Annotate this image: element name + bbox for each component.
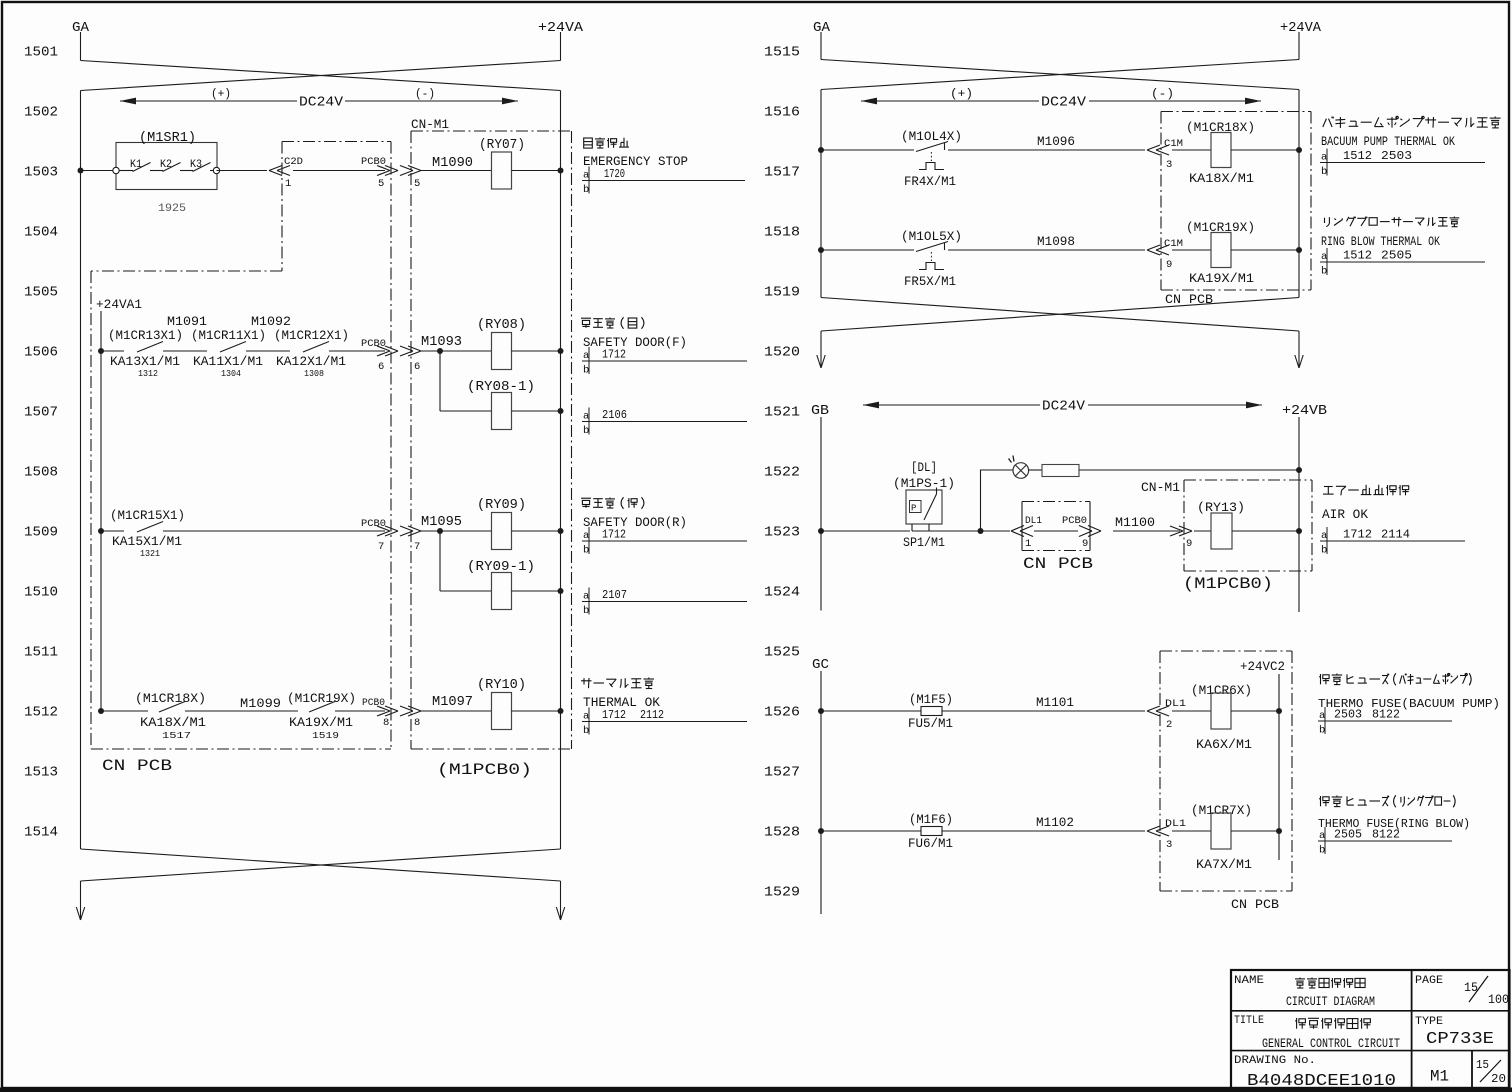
wire row 1526 to +24VC2 <box>1231 710 1279 712</box>
wire row 1523 segment b <box>929 530 979 532</box>
svg-text:GB: GB <box>811 404 829 419</box>
svg-text:8: 8 <box>414 717 420 729</box>
svg-text:(RY10): (RY10) <box>477 678 526 693</box>
svg-text:2505: 2505 <box>1381 249 1412 263</box>
wire +24VA drop <box>560 32 562 61</box>
wire lamp to resistor <box>1029 469 1042 471</box>
svg-text:15: 15 <box>1476 1058 1489 1072</box>
svg-text:b: b <box>1321 545 1327 557</box>
wire row 1503 segment b <box>217 170 268 172</box>
wire row 1509 to bus <box>512 530 561 532</box>
svg-text:(RY08): (RY08) <box>477 318 526 333</box>
relay coil RY09 <box>477 498 526 550</box>
signal THERMO FUSE (RING BLOW) output <box>1318 795 1470 831</box>
wire GA left bus <box>80 91 82 850</box>
wire row 1506 segment a <box>101 350 124 352</box>
svg-text:6: 6 <box>378 361 384 373</box>
svg-text:+24VC2: +24VC2 <box>1240 660 1285 674</box>
svg-text:CN-M1: CN-M1 <box>1141 481 1180 495</box>
svg-text:P: P <box>911 504 916 514</box>
svg-text:b: b <box>583 365 589 377</box>
svg-text:GA: GA <box>813 20 831 36</box>
relay coil RY13 <box>1197 501 1245 549</box>
svg-text:FU5/M1: FU5/M1 <box>908 717 953 731</box>
wire bus crossover bottom-left <box>81 849 561 881</box>
svg-text:1720: 1720 <box>604 167 625 181</box>
svg-text:K2: K2 <box>160 159 172 171</box>
svg-text:9: 9 <box>1186 538 1192 550</box>
svg-text:7: 7 <box>414 541 420 553</box>
svg-text:PCB0: PCB0 <box>361 338 386 350</box>
svg-text:C2D: C2D <box>284 156 303 168</box>
svg-text:2503: 2503 <box>1334 708 1362 722</box>
wire row 1506 to bus <box>512 350 561 352</box>
svg-text:b: b <box>1321 266 1327 278</box>
wire RY08-1 branch <box>439 351 441 411</box>
relay coil KA6X/M1 (M1CR6X) <box>1191 684 1252 752</box>
wire M1093 <box>421 350 440 352</box>
svg-text:EMERGENCY STOP: EMERGENCY STOP <box>583 155 688 169</box>
svg-text:CN PCB: CN PCB <box>1231 897 1279 912</box>
svg-text:1308: 1308 <box>304 369 324 379</box>
svg-text:M1096: M1096 <box>1037 134 1075 149</box>
svg-text:1516: 1516 <box>764 105 800 121</box>
connector CN-M1 pin 8 <box>400 706 421 729</box>
svg-text:KA19X/M1: KA19X/M1 <box>1189 272 1254 286</box>
wire GB bus <box>820 417 822 611</box>
contact KA11X1/M1 (M1CR11X1) <box>191 314 291 379</box>
svg-text:(M1OL5X): (M1OL5X) <box>901 230 962 244</box>
svg-text:2107: 2107 <box>602 588 627 602</box>
line numbers 1515-1529 <box>764 45 800 901</box>
wire M1101 <box>942 710 1145 712</box>
svg-text:+24VA1: +24VA1 <box>96 297 142 312</box>
svg-text:6: 6 <box>414 361 420 373</box>
svg-text:(+): (+) <box>211 87 231 101</box>
svg-text:8122: 8122 <box>1372 708 1400 722</box>
relay coil RY10 <box>477 678 526 730</box>
wire right bus exit arrow <box>560 881 562 920</box>
wire resistor to bus <box>1079 469 1299 471</box>
svg-text:b: b <box>583 425 589 437</box>
wire row 1512 segment a <box>101 710 148 712</box>
svg-text:TITLE: TITLE <box>1234 1015 1264 1027</box>
relay coil KA18X/M1 (M1CR18X) <box>1186 121 1255 186</box>
svg-text:1712: 1712 <box>602 528 626 542</box>
svg-text:1312: 1312 <box>138 369 158 379</box>
wire +24VB bus <box>1298 417 1300 612</box>
wire row 1506 segment c <box>246 350 290 352</box>
connector CN PCB box DL1/PCB0 <box>1011 502 1101 551</box>
svg-text:a: a <box>583 411 589 423</box>
thermal overload contact FR4X/M1 (M1OL4X) <box>901 130 962 189</box>
svg-text:b: b <box>1319 725 1325 737</box>
svg-text:1503: 1503 <box>24 165 58 181</box>
node right bus row 1512 <box>558 708 564 714</box>
svg-text:1925: 1925 <box>158 203 186 215</box>
relay coil RY07 <box>479 138 525 189</box>
svg-text:1304: 1304 <box>221 369 241 379</box>
svg-text:KA7X/M1: KA7X/M1 <box>1196 858 1252 872</box>
svg-text:KA18X/M1: KA18X/M1 <box>140 716 206 730</box>
connector CN-M1 pin 5 <box>400 166 421 191</box>
svg-text:8: 8 <box>383 717 389 729</box>
svg-text:1509: 1509 <box>24 525 58 541</box>
svg-text:NAME: NAME <box>1234 975 1264 987</box>
node right bus row 1506 <box>558 348 564 354</box>
safety relay M1SR1 <box>113 130 220 190</box>
wire row 1528 to +24VC2 <box>1231 830 1279 832</box>
svg-text:CP733E: CP733E <box>1426 1030 1494 1049</box>
svg-text:(M1CR18X): (M1CR18X) <box>135 692 206 706</box>
node +24VA1 row 1509 <box>98 528 104 534</box>
svg-text:FU6/M1: FU6/M1 <box>908 837 953 851</box>
connector C2D pin 1 <box>269 156 303 190</box>
svg-text:b: b <box>583 605 589 617</box>
wire row 1510 to bus <box>512 590 561 592</box>
wire +24VA1 sub-bus <box>100 311 102 711</box>
svg-text:b: b <box>583 725 589 737</box>
connector C1M pin 9 <box>1147 238 1183 271</box>
wire bus crossover top-left <box>81 61 561 91</box>
svg-text:1522: 1522 <box>764 465 800 481</box>
svg-text:1515: 1515 <box>764 45 800 61</box>
node GA bus row 1517 <box>818 147 824 153</box>
svg-text:DL1: DL1 <box>1165 818 1186 830</box>
connector DL1 pin 3 <box>1147 818 1186 851</box>
svg-text:1519: 1519 <box>764 285 800 301</box>
wire row 1523 to coil <box>1194 530 1211 532</box>
signal BACUUM PUMP THERMAL OK output <box>1321 116 1501 149</box>
svg-text:M1097: M1097 <box>432 695 473 710</box>
svg-text:SAFETY DOOR(R): SAFETY DOOR(R) <box>583 516 687 530</box>
signal EMERGENCY STOP output <box>583 138 688 170</box>
svg-text:a: a <box>1319 710 1325 722</box>
svg-text:1510: 1510 <box>24 585 58 601</box>
label DC24V span (GB) <box>863 399 1262 415</box>
svg-text:1505: 1505 <box>24 285 58 301</box>
svg-text:TYPE: TYPE <box>1415 1016 1443 1028</box>
svg-text:M1101: M1101 <box>1036 695 1074 710</box>
svg-text:DC24V: DC24V <box>1041 95 1087 111</box>
line numbers 1501-1514 <box>24 45 58 841</box>
node +24VC2 row 1526 <box>1276 708 1282 714</box>
svg-text:1508: 1508 <box>24 465 58 481</box>
node GA bus row 1518 <box>818 247 824 253</box>
wire row 1523 segment a <box>821 530 910 532</box>
wire row 1518 to coil <box>1172 249 1211 251</box>
svg-text:(-): (-) <box>415 87 435 101</box>
wire row 1528 to coil <box>1172 830 1211 832</box>
wire GA drop <box>80 32 82 61</box>
CN PCB board boundary (left) <box>91 142 391 750</box>
svg-text:(M1F6): (M1F6) <box>909 813 953 827</box>
wire row 1517 to coil <box>1172 149 1211 151</box>
svg-text:(M1CR12X1): (M1CR12X1) <box>274 329 349 343</box>
wire row 1517 segment a <box>821 149 914 151</box>
label DC24V span (right top) <box>861 87 1261 111</box>
svg-text:+24VA: +24VA <box>1280 20 1322 36</box>
svg-text:5: 5 <box>378 178 384 190</box>
connector DL1 pin 2 <box>1147 698 1186 731</box>
svg-text:b: b <box>1319 845 1325 857</box>
svg-text:1514: 1514 <box>24 825 58 841</box>
relay coil RY09-1 <box>467 560 535 610</box>
svg-text:a: a <box>1321 530 1327 542</box>
svg-text:(M1CR11X1): (M1CR11X1) <box>191 329 266 343</box>
node GC bus row 1528 <box>818 828 824 834</box>
svg-text:M1090: M1090 <box>432 156 473 171</box>
resistor (dropping) <box>1042 465 1079 477</box>
svg-text:GENERAL CONTROL CIRCUIT: GENERAL CONTROL CIRCUIT <box>1262 1036 1400 1051</box>
fuse FU5/M1 (M1F5) <box>908 693 953 731</box>
svg-text:KA12X1/M1: KA12X1/M1 <box>276 355 346 369</box>
svg-text:KA19X/M1: KA19X/M1 <box>289 716 353 730</box>
svg-text:1502: 1502 <box>24 105 58 121</box>
wire +24VA bus right section1 <box>1298 90 1300 298</box>
svg-text:PCB0: PCB0 <box>362 697 385 709</box>
connector PCB0 pin 8 <box>362 697 398 729</box>
svg-text:DC24V: DC24V <box>299 95 344 111</box>
node GB bus row 1523 <box>818 528 824 534</box>
svg-text:1520: 1520 <box>764 345 800 361</box>
contact KA12X1/M1 (M1CR12X1) <box>274 329 349 379</box>
signal RING BLOW THERMAL OK output <box>1321 217 1459 250</box>
node GC bus row 1526 <box>818 708 824 714</box>
wire M1095 <box>421 530 440 532</box>
svg-text:+24VB: +24VB <box>1282 404 1327 419</box>
wire lamp branch <box>981 470 1014 531</box>
svg-text:a: a <box>583 711 589 723</box>
contact KA13X1/M1 (M1CR13X1) <box>108 314 207 379</box>
svg-text:(M1CR7X): (M1CR7X) <box>1191 804 1252 818</box>
wire row 1523 segment c <box>982 530 1010 532</box>
M1PCB0 board boundary (left) <box>411 131 572 749</box>
title block <box>1231 970 1510 1089</box>
svg-text:a: a <box>583 350 589 362</box>
pressure switch SP1/M1 (M1PS-1) <box>893 461 955 550</box>
CN PCB board boundary (right section1) <box>1161 112 1311 291</box>
wire row 1503 segment a <box>81 170 114 172</box>
svg-text:1524: 1524 <box>764 585 800 601</box>
connector PCB0 pin 7 <box>361 518 398 553</box>
svg-text:2106: 2106 <box>602 408 627 422</box>
svg-text:2503: 2503 <box>1381 149 1412 163</box>
svg-text:CN PCB: CN PCB <box>1165 292 1213 307</box>
svg-text:K1: K1 <box>130 159 142 171</box>
svg-text:1513: 1513 <box>24 765 58 781</box>
svg-text:SAFETY DOOR(F): SAFETY DOOR(F) <box>583 336 687 350</box>
wire M1098 <box>948 249 1145 251</box>
svg-text:C1M: C1M <box>1164 238 1183 250</box>
svg-text:9: 9 <box>1166 259 1172 271</box>
fuse FU6/M1 (M1F6) <box>908 813 953 851</box>
svg-text:1528: 1528 <box>764 825 800 841</box>
connector C1M pin 3 <box>1147 138 1183 171</box>
title block TITLE cell <box>1234 1015 1400 1051</box>
svg-text:B4048DCEE1010: B4048DCEE1010 <box>1247 1072 1396 1091</box>
svg-text:CN PCB: CN PCB <box>1023 555 1093 573</box>
wire M1099 <box>185 710 298 712</box>
svg-text:1712: 1712 <box>1343 528 1372 542</box>
title block DRAWING cell <box>1234 1055 1396 1091</box>
wire row 1512 to bus <box>512 710 561 712</box>
svg-text:BACUUM PUMP THERMAL OK: BACUUM PUMP THERMAL OK <box>1321 135 1455 149</box>
svg-text:CN-M1: CN-M1 <box>411 117 449 132</box>
svg-text:KA15X1/M1: KA15X1/M1 <box>112 535 182 549</box>
indicator lamp DL <box>1009 456 1029 479</box>
svg-text:9: 9 <box>1082 538 1088 550</box>
svg-text:(+): (+) <box>950 87 973 101</box>
svg-text:2: 2 <box>1166 719 1172 731</box>
svg-text:1519: 1519 <box>312 731 339 741</box>
node +24VA1 row 1512 <box>98 708 104 714</box>
svg-text:M1092: M1092 <box>251 314 291 329</box>
node +24VB row 1523 <box>1296 528 1302 534</box>
relay coil KA7X/M1 (M1CR7X) <box>1191 804 1252 872</box>
wire M1100 <box>1034 530 1078 532</box>
title block TYPE cell <box>1415 1016 1494 1049</box>
svg-text:CN PCB: CN PCB <box>102 757 172 775</box>
signal SAFETY DOOR(R) output <box>581 497 687 530</box>
M1PCB0 board boundary (GB) <box>1184 480 1312 571</box>
svg-text:1518: 1518 <box>764 225 800 241</box>
wire row 1526 to coil <box>1172 710 1211 712</box>
svg-text:1: 1 <box>285 178 291 190</box>
svg-text:1712: 1712 <box>602 708 626 722</box>
svg-text:a: a <box>583 591 589 603</box>
svg-text:1521: 1521 <box>764 405 800 421</box>
svg-text:b: b <box>583 545 589 557</box>
wire M1090 <box>421 170 491 172</box>
svg-text:(M1OL4X): (M1OL4X) <box>901 130 962 144</box>
wire row 1512 segment b <box>335 710 385 712</box>
svg-text:b: b <box>1321 166 1327 178</box>
svg-text:2112: 2112 <box>640 708 664 722</box>
title block PAGE cell <box>1415 975 1509 1007</box>
wire row 1523 to bus <box>1232 530 1299 532</box>
wire M1096 <box>948 149 1145 151</box>
svg-text:(M1F5): (M1F5) <box>909 693 953 707</box>
svg-text:(-): (-) <box>1151 87 1174 101</box>
svg-text:1523: 1523 <box>764 525 800 541</box>
node +24VC2 row 1528 <box>1276 828 1282 834</box>
connector PCB0 pin 6 <box>361 338 398 373</box>
node left bus row 1503 <box>78 168 84 174</box>
signal THERMO FUSE (BACUUM PUMP) output <box>1318 673 1500 711</box>
connector CN-M1 pin 6 <box>400 346 421 373</box>
svg-text:1: 1 <box>1025 538 1031 550</box>
svg-text:M1099: M1099 <box>240 696 281 711</box>
svg-text:PCB0: PCB0 <box>361 156 386 168</box>
svg-text:(M1CR15X1): (M1CR15X1) <box>110 509 185 523</box>
svg-text:GC: GC <box>812 658 829 673</box>
wire row 1526 segment a <box>821 710 921 712</box>
node right bus row 1510 <box>558 588 564 594</box>
signal SAFETY DOOR(F) output <box>581 317 687 350</box>
svg-text:7: 7 <box>378 541 384 553</box>
svg-text:M1098: M1098 <box>1037 234 1075 249</box>
connector PCB0 pin 5 <box>361 156 398 190</box>
wire M1102 <box>942 830 1145 832</box>
contact KA19X/M1 (M1CR19X) <box>287 692 356 741</box>
svg-text:2114: 2114 <box>1381 528 1410 542</box>
wire +24VC2 rail <box>1278 674 1280 860</box>
svg-text:a: a <box>1321 152 1327 164</box>
svg-text:M1100: M1100 <box>1115 515 1155 530</box>
wire section1 right exit arrow <box>1298 331 1300 368</box>
svg-text:M1091: M1091 <box>167 314 207 329</box>
svg-text:20: 20 <box>1491 1072 1506 1086</box>
wire RY09-1 branch <box>439 531 441 591</box>
svg-text:(RY07): (RY07) <box>479 138 525 153</box>
svg-text:a: a <box>1319 830 1325 842</box>
svg-text:KA13X1/M1: KA13X1/M1 <box>110 355 180 369</box>
svg-text:a: a <box>1321 251 1327 263</box>
svg-text:(M1PCB0): (M1PCB0) <box>437 761 532 779</box>
svg-text:1512: 1512 <box>1343 249 1372 263</box>
wire row 1509 segment b <box>163 530 385 532</box>
wire M1097 <box>421 710 491 712</box>
svg-text:(M1PS-1): (M1PS-1) <box>893 477 955 491</box>
wire row 1517 to bus <box>1231 149 1299 151</box>
wire row 1506 segment b <box>163 350 207 352</box>
wire row 1518 segment a <box>821 249 914 251</box>
wire row 1528 segment a <box>821 830 921 832</box>
contact KA15X1/M1 (M1CR15X1) <box>110 509 185 559</box>
node right bus row 1509 <box>558 528 564 534</box>
svg-text:1517: 1517 <box>764 165 800 181</box>
svg-text:(M1CR13X1): (M1CR13X1) <box>108 329 183 343</box>
wire row 1506 segment d <box>329 350 385 352</box>
svg-text:M1: M1 <box>1430 1068 1449 1086</box>
svg-text:1526: 1526 <box>764 705 800 721</box>
node +24VA1 row 1506 <box>98 348 104 354</box>
svg-text:DL1: DL1 <box>1025 515 1042 527</box>
svg-text:DC24V: DC24V <box>1042 399 1086 415</box>
svg-text:SP1/M1: SP1/M1 <box>903 536 945 550</box>
svg-text:100: 100 <box>1488 992 1509 1007</box>
wire GC bus <box>820 671 822 914</box>
svg-text:1527: 1527 <box>764 765 800 781</box>
wire row 1503 to bus <box>512 170 561 172</box>
svg-text:CIRCUIT DIAGRAM: CIRCUIT DIAGRAM <box>1286 994 1375 1009</box>
svg-text:2505: 2505 <box>1334 828 1362 842</box>
svg-text:8122: 8122 <box>1372 828 1400 842</box>
connector CN-M1 pin 9 <box>1170 526 1192 550</box>
wire +24VA right bus <box>560 91 562 850</box>
svg-text:DRAWING No.: DRAWING No. <box>1234 1055 1316 1067</box>
wire +24VA drop right <box>1298 32 1300 60</box>
svg-text:PCB0: PCB0 <box>361 518 386 530</box>
wire left bus exit arrow <box>80 881 82 920</box>
svg-text:a: a <box>583 170 589 182</box>
svg-text:(M1CR19X): (M1CR19X) <box>287 692 356 706</box>
contact KA18X/M1 (M1CR18X) <box>135 692 206 741</box>
wire row 1518 to bus <box>1231 249 1299 251</box>
wire bus crossover top-right <box>821 60 1299 90</box>
svg-text:1501: 1501 <box>24 45 58 61</box>
svg-text:1507: 1507 <box>24 405 58 421</box>
node right bus row 1503 <box>558 168 564 174</box>
relay coil KA19X/M1 (M1CR19X) <box>1186 221 1255 286</box>
svg-text:FR5X/M1: FR5X/M1 <box>904 275 956 289</box>
svg-text:5: 5 <box>414 178 420 190</box>
svg-text:1525: 1525 <box>764 645 800 661</box>
signal AIR OK output <box>1322 485 1409 522</box>
svg-text:C1M: C1M <box>1164 138 1183 150</box>
svg-text:(RY09): (RY09) <box>477 498 526 513</box>
